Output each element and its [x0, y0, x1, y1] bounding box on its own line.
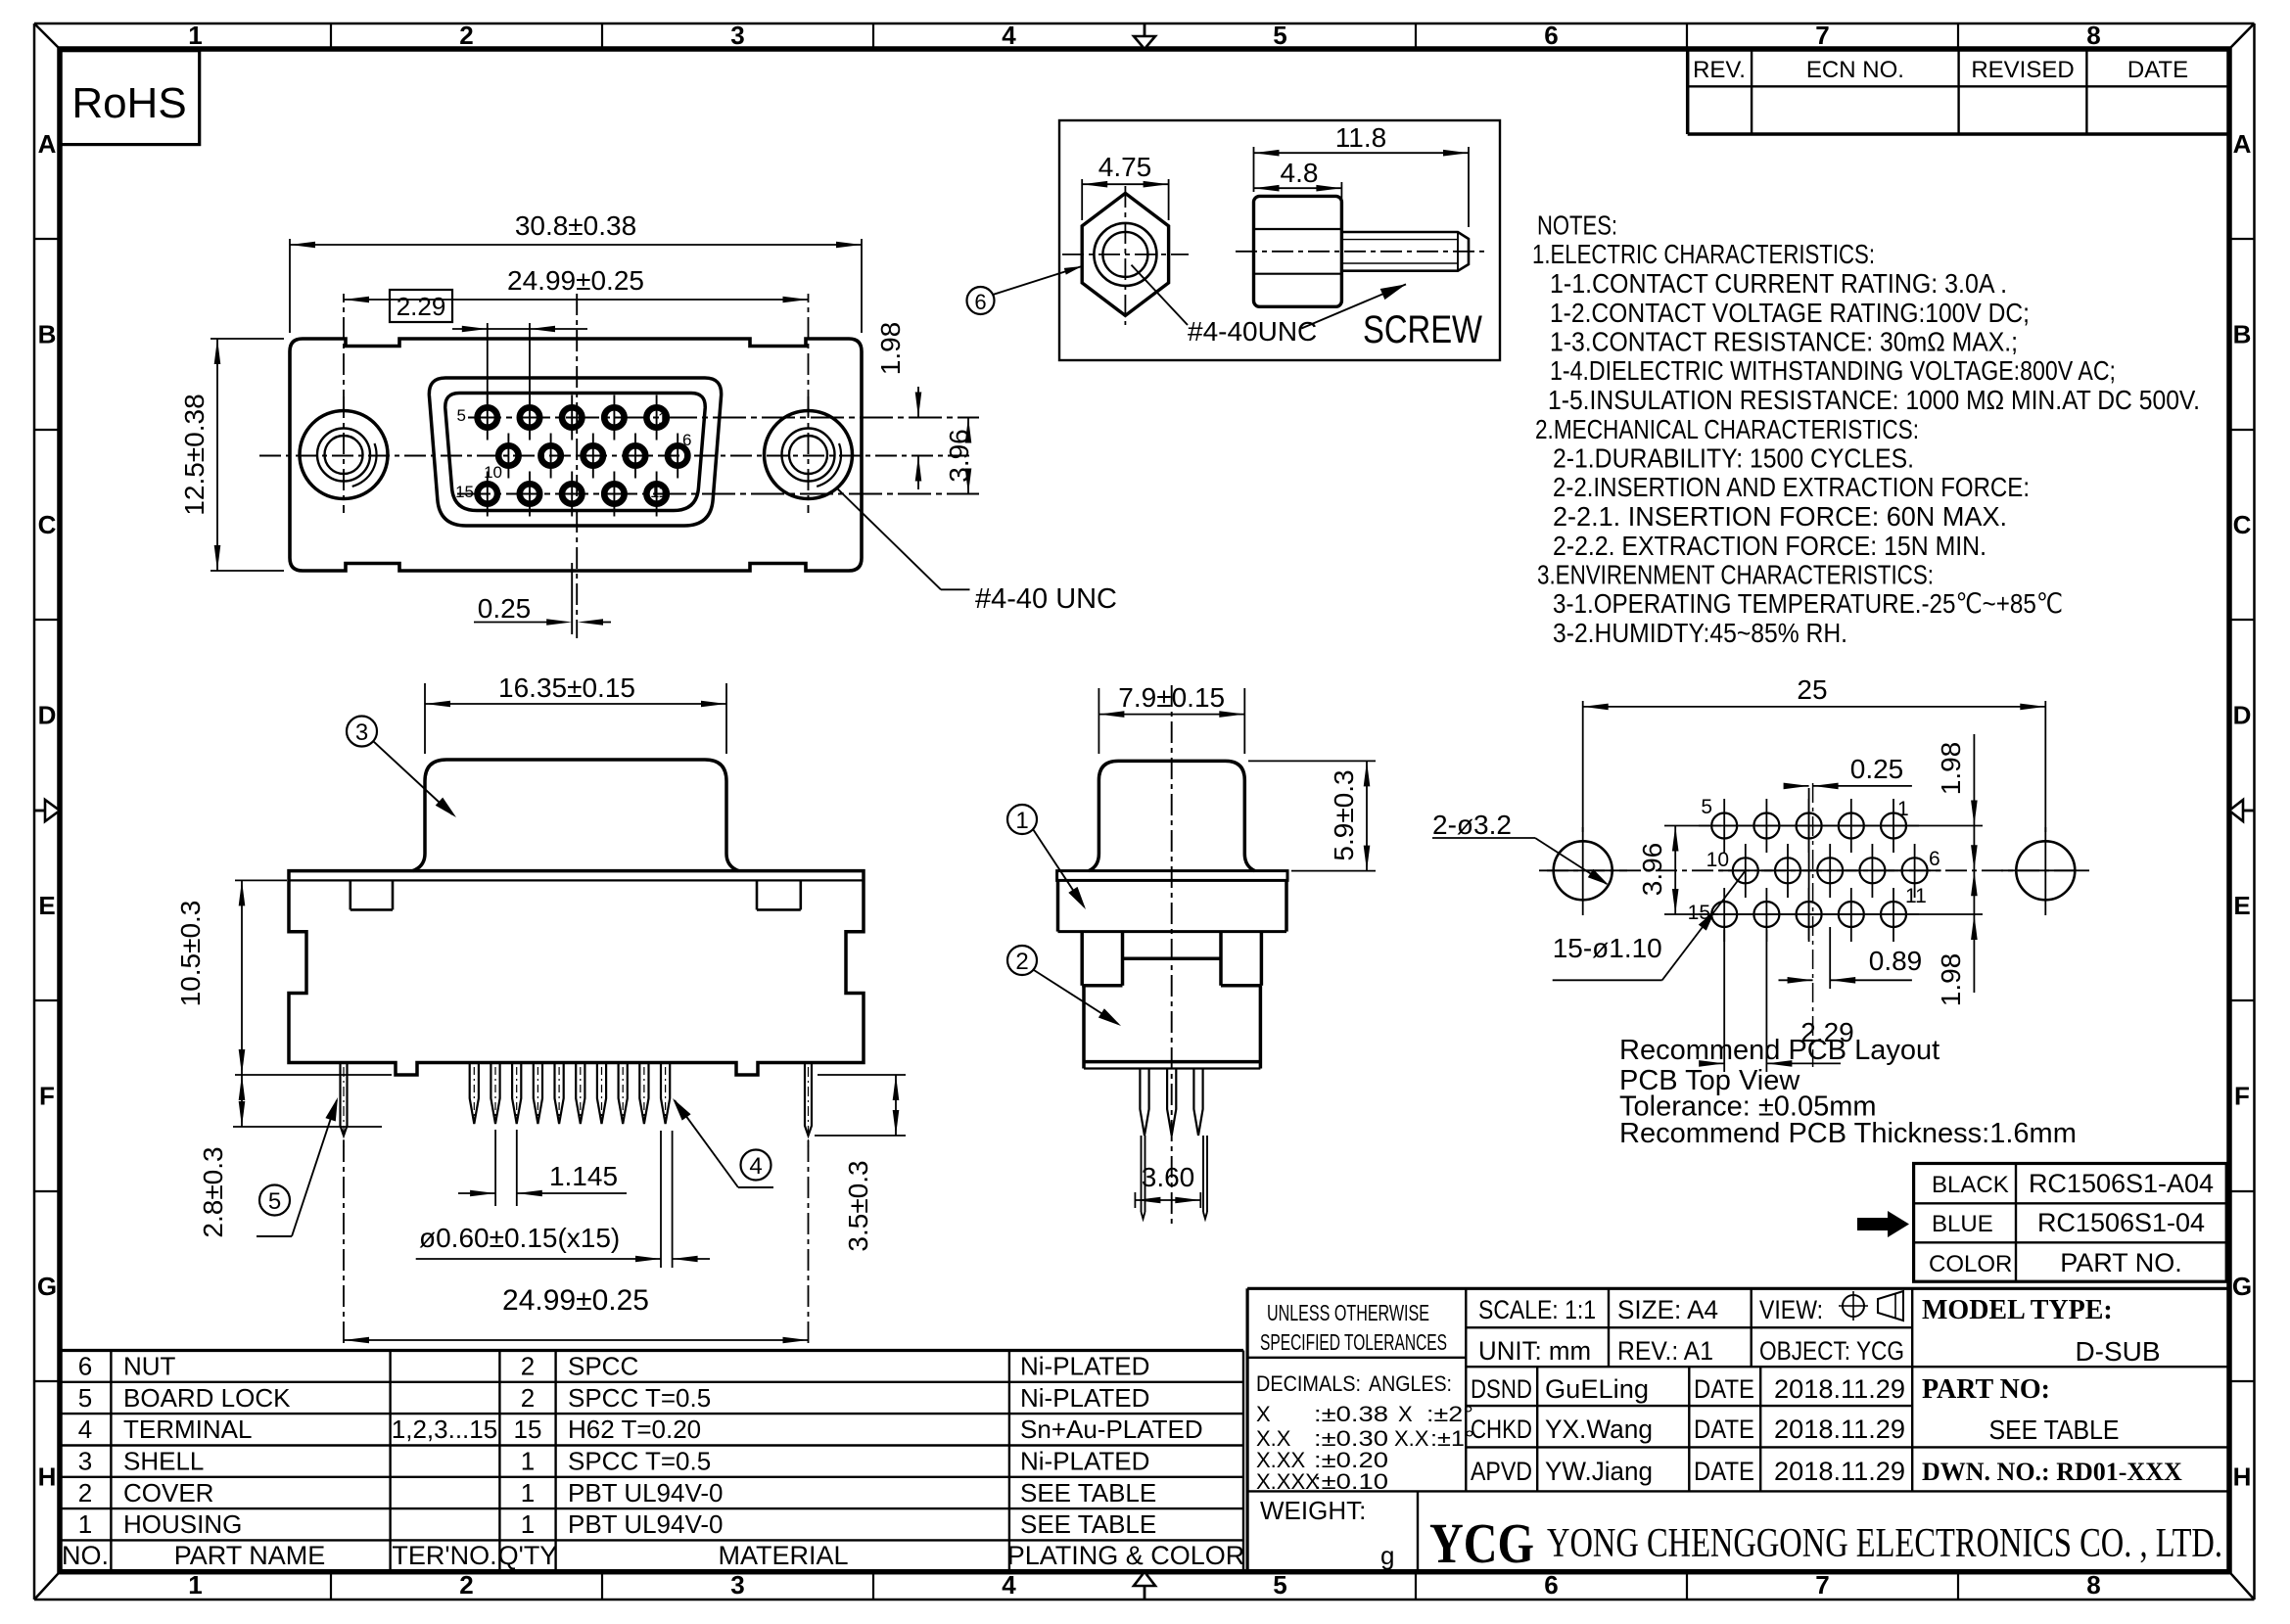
- svg-text:15: 15: [514, 1415, 542, 1444]
- svg-text:2: 2: [521, 1352, 535, 1381]
- PCB row3 line: [1699, 913, 1919, 915]
- hex nut circles: [1094, 223, 1156, 286]
- front view flange outline: [290, 339, 862, 571]
- weight text: [1260, 1496, 1394, 1570]
- mounting hole left front view: [300, 396, 388, 513]
- corner diagonal top-right: [2229, 23, 2255, 49]
- balloon 4 terminal: [673, 1098, 773, 1187]
- svg-text:TERMINAL: TERMINAL: [123, 1415, 252, 1444]
- corner diagonal bottom-left: [34, 1572, 60, 1600]
- svg-text:16.35±0.15: 16.35±0.15: [498, 673, 635, 703]
- svg-text:0.89: 0.89: [1869, 946, 1923, 976]
- svg-text:3.ENVIRENMENT CHARACTERISTICS: 3.ENVIRENMENT CHARACTERISTICS:: [1537, 560, 1934, 590]
- rear view body outline: [289, 871, 864, 1075]
- svg-text:UNIT: mm: UNIT: mm: [1478, 1336, 1591, 1366]
- svg-text:X: X: [1398, 1402, 1413, 1426]
- svg-text:10: 10: [484, 463, 502, 482]
- svg-text:ECN NO.: ECN NO.: [1806, 57, 1904, 83]
- svg-text:ø0.60±0.15(x15): ø0.60±0.15(x15): [419, 1223, 620, 1253]
- svg-text:2-1.DURABILITY: 1500 CYCLES.: 2-1.DURABILITY: 1500 CYCLES.: [1553, 443, 1914, 474]
- pin contacts row 3 (pins 15-11): [478, 472, 667, 517]
- part no text: [1922, 1374, 2182, 1486]
- svg-text:A: A: [38, 129, 57, 159]
- side view housing block: [1058, 880, 1287, 931]
- svg-text:SHELL: SHELL: [123, 1447, 204, 1476]
- svg-text:#4-40 UNC: #4-40 UNC: [975, 583, 1117, 615]
- rear view flange line: [289, 879, 864, 881]
- PCB vertical centerline: [1812, 783, 1814, 1067]
- dimension 25: [1583, 674, 2046, 832]
- svg-text:PBT UL94V-0: PBT UL94V-0: [568, 1509, 724, 1539]
- YCG logo: [1429, 1511, 1534, 1575]
- svg-text:1.ELECTRIC CHARACTERISTICS:: 1.ELECTRIC CHARACTERISTICS:: [1532, 239, 1875, 269]
- dimension 5.9±0.3: [1248, 761, 1376, 870]
- svg-text:11: 11: [1905, 885, 1927, 907]
- zone numbers top: [188, 21, 2100, 50]
- PCB note text: [1619, 1035, 2077, 1149]
- svg-text:BLUE: BLUE: [1932, 1211, 1993, 1237]
- svg-text:#4-40UNC: #4-40UNC: [1188, 316, 1317, 347]
- title block grid: [1247, 1288, 2229, 1571]
- balloon 1 housing: [1007, 805, 1086, 909]
- dimension 0.25 PCB: [1784, 754, 1912, 789]
- svg-text:5: 5: [1701, 796, 1712, 818]
- label 15-ø1.10: [1553, 870, 1746, 980]
- svg-text:DECIMALS:: DECIMALS:: [1256, 1371, 1361, 1396]
- side view cover profile: [1082, 932, 1261, 1069]
- svg-text:5.9±0.3: 5.9±0.3: [1329, 769, 1359, 860]
- svg-text:PBT UL94V-0: PBT UL94V-0: [568, 1478, 724, 1508]
- front view vertical centerline: [576, 294, 578, 638]
- svg-text:OBJECT: YCG: OBJECT: YCG: [1759, 1336, 1904, 1366]
- svg-text:2-2.1. INSERTION FORCE:: 2-2.1. INSERTION FORCE: 60N MAX.: [1553, 501, 2007, 532]
- zone letters right: [2232, 129, 2252, 1492]
- svg-text:2: 2: [459, 21, 473, 50]
- RoHS label box: [60, 51, 200, 145]
- dimension 2.29 boxed: [390, 290, 587, 406]
- svg-text:H62 T=0.20: H62 T=0.20: [568, 1415, 701, 1444]
- svg-text:SPECIFIED TOLERANCES: SPECIFIED TOLERANCES: [1260, 1329, 1447, 1355]
- svg-text:1-5.INSULATION RESISTANCE: 1: 1-5.INSULATION RESISTANCE: 1000 MΩ MIN.A…: [1548, 385, 2200, 415]
- svg-text:2-ø3.2: 2-ø3.2: [1432, 810, 1512, 840]
- dimension ø0.60±0.15(x15): [416, 1131, 710, 1268]
- svg-text:DATE: DATE: [1694, 1415, 1754, 1444]
- svg-text:1: 1: [521, 1509, 535, 1539]
- svg-text:PLATING & COLOR: PLATING & COLOR: [1007, 1541, 1245, 1570]
- corner diagonal top-left: [34, 23, 60, 49]
- dimension 16.35±0.15: [425, 673, 726, 754]
- svg-text:BOARD LOCK: BOARD LOCK: [123, 1383, 291, 1413]
- svg-text:PART NAME: PART NAME: [174, 1541, 326, 1570]
- svg-text:REVISED: REVISED: [1971, 57, 2074, 83]
- svg-text:X.XXX: X.XXX: [1256, 1469, 1320, 1494]
- svg-text:2.29: 2.29: [397, 292, 446, 321]
- svg-text:SPCC: SPCC: [568, 1352, 638, 1381]
- svg-text:4.75: 4.75: [1098, 152, 1152, 182]
- board lock pin right rear: [805, 1063, 812, 1148]
- svg-text:1: 1: [521, 1478, 535, 1508]
- svg-text:SEE TABLE: SEE TABLE: [1020, 1509, 1156, 1539]
- svg-text:2.MECHANICAL CHARACTERISTICS:: 2.MECHANICAL CHARACTERISTICS:: [1535, 414, 1919, 444]
- dimension 11.8: [1254, 122, 1470, 227]
- board lock pin left rear: [341, 1063, 348, 1148]
- dimension 1.98 PCB top: [1724, 734, 1983, 993]
- svg-text:HOUSING: HOUSING: [123, 1509, 242, 1539]
- dimension 3.96 PCB: [1637, 826, 1721, 915]
- svg-text:6: 6: [1929, 848, 1940, 870]
- svg-text:24.99±0.25: 24.99±0.25: [502, 1284, 649, 1317]
- view symbols: [1839, 1291, 1903, 1321]
- svg-text:DSND: DSND: [1471, 1374, 1532, 1404]
- label 2-ø3.2: [1432, 810, 1609, 885]
- svg-text:C: C: [38, 510, 57, 539]
- title block row 2 text: [1478, 1336, 1904, 1366]
- screw head side view: [1254, 196, 1342, 306]
- svg-text:1.98: 1.98: [1936, 953, 1966, 1007]
- svg-text:1: 1: [188, 1570, 202, 1600]
- svg-text:REV.: A1: REV.: A1: [1617, 1336, 1713, 1366]
- zone numbers bottom: [188, 1570, 2100, 1600]
- svg-text:3: 3: [78, 1447, 92, 1476]
- svg-text:RoHS: RoHS: [71, 79, 186, 127]
- PCB pin labels: [1688, 796, 1940, 924]
- rear view board lock tab right: [757, 880, 801, 909]
- svg-text:6: 6: [974, 290, 986, 314]
- svg-text:WEIGHT:: WEIGHT:: [1260, 1496, 1366, 1525]
- dimension 3.5±0.3: [815, 1075, 906, 1252]
- svg-text:ANGLES:: ANGLES:: [1369, 1371, 1452, 1396]
- D-sub shell inner outline: [445, 394, 705, 511]
- svg-text:Recommend PCB Thickness:1.6m: Recommend PCB Thickness:1.6mm: [1619, 1118, 2077, 1149]
- svg-text:NOTES:: NOTES:: [1537, 210, 1617, 241]
- svg-text:2: 2: [78, 1478, 92, 1508]
- svg-text:H: H: [38, 1462, 57, 1492]
- svg-text:2018.11.29: 2018.11.29: [1774, 1457, 1905, 1486]
- svg-text:NO.: NO.: [62, 1541, 109, 1570]
- svg-text:RC1506S1-A04: RC1506S1-A04: [2029, 1169, 2214, 1198]
- svg-text:GuELing: GuELing: [1545, 1374, 1649, 1404]
- svg-text:12.5±0.38: 12.5±0.38: [179, 394, 210, 515]
- svg-text:COVER: COVER: [123, 1478, 213, 1508]
- svg-text:2-2.2. EXTRACTION FORCE: 15: 2-2.2. EXTRACTION FORCE: 15N MIN.: [1553, 531, 1986, 561]
- svg-text::±0.10: :±0.10: [1314, 1469, 1388, 1494]
- zone letters left: [37, 129, 57, 1492]
- svg-text:DATE: DATE: [1694, 1374, 1754, 1404]
- svg-text:G: G: [2232, 1272, 2252, 1301]
- side view terminal pins: [1140, 1069, 1202, 1137]
- dimension 1.145: [458, 1130, 627, 1206]
- svg-text:RC1506S1-04: RC1506S1-04: [2037, 1208, 2205, 1237]
- svg-text:Ni-PLATED: Ni-PLATED: [1020, 1447, 1149, 1476]
- balloon 6 nut: [967, 266, 1083, 314]
- svg-text:7.9±0.15: 7.9±0.15: [1118, 682, 1225, 713]
- terminal pins rear view: [470, 1063, 671, 1125]
- PCB holes row 2: [1719, 844, 1941, 898]
- svg-text:YX.Wang: YX.Wang: [1545, 1415, 1653, 1444]
- svg-text:3.5±0.3: 3.5±0.3: [843, 1160, 873, 1251]
- balloon 3 shell: [347, 717, 456, 818]
- tolerance box text: [1256, 1300, 1474, 1494]
- rear view board lock tab left: [351, 880, 393, 909]
- svg-text:D: D: [38, 701, 57, 730]
- dimension 1.98 PCB bottom: [1724, 914, 1983, 1006]
- svg-text:5: 5: [457, 406, 466, 425]
- svg-text:G: G: [37, 1272, 57, 1301]
- svg-text:PART NO:: PART NO:: [1922, 1374, 2050, 1405]
- notes text block: [1532, 210, 2200, 649]
- svg-text:7: 7: [1815, 21, 1829, 50]
- color table grid: [1914, 1164, 2227, 1282]
- label #4-40UNC nut thread: [1132, 265, 1318, 347]
- svg-text:1.98: 1.98: [1936, 742, 1966, 796]
- screw threaded shank: [1341, 232, 1469, 271]
- svg-text:H: H: [2233, 1462, 2252, 1492]
- svg-text:Recommend PCB Layout: Recommend PCB Layout: [1619, 1035, 1939, 1066]
- revision table grid: [1688, 49, 2229, 134]
- corner diagonal bottom-right: [2229, 1572, 2255, 1600]
- svg-text:1: 1: [1897, 798, 1909, 820]
- svg-text:g: g: [1380, 1541, 1394, 1570]
- svg-text:3.60: 3.60: [1142, 1162, 1195, 1192]
- dimension 7.9±0.15: [1098, 682, 1244, 754]
- label #4-40 UNC with leader: [838, 489, 1117, 615]
- color table arrow: [1857, 1211, 1909, 1237]
- svg-text:1,2,3...15: 1,2,3...15: [392, 1415, 497, 1444]
- svg-text:1-2.CONTACT VOLTAGE RATING:1: 1-2.CONTACT VOLTAGE RATING:100V DC;: [1550, 298, 2030, 328]
- dimension 3.60: [1135, 1162, 1200, 1208]
- svg-text:5: 5: [268, 1188, 281, 1215]
- svg-text:E: E: [2233, 891, 2250, 920]
- color table text: [1929, 1169, 2214, 1277]
- zone tick marks left: [34, 239, 60, 1381]
- svg-text:0.25: 0.25: [478, 593, 532, 624]
- svg-text:YONG CHENGGONG ELECTRONICS: YONG CHENGGONG ELECTRONICS CO. , LTD.: [1547, 1521, 2222, 1566]
- PCB holes row 3: [1711, 888, 1906, 942]
- PCB mounting hole left: [1539, 827, 1627, 915]
- dimension 30.8±0.38: [290, 210, 862, 333]
- svg-text:VIEW:: VIEW:: [1759, 1295, 1823, 1324]
- svg-text:F: F: [2234, 1082, 2250, 1111]
- front view pin row 3 centerline: [457, 493, 979, 495]
- PCB row1 line: [1699, 825, 1919, 827]
- svg-text:4: 4: [78, 1415, 92, 1444]
- svg-text:24.99±0.25: 24.99±0.25: [507, 265, 644, 296]
- svg-text:A: A: [2233, 129, 2252, 159]
- svg-text:15: 15: [455, 483, 474, 501]
- dimension 12.5±0.38: [179, 339, 284, 571]
- pin contacts row 1 (pins 5-1): [478, 395, 667, 441]
- title block row 1 text: [1478, 1295, 1823, 1324]
- svg-text:1: 1: [188, 21, 202, 50]
- svg-text:1: 1: [658, 409, 667, 428]
- svg-text:Ni-PLATED: Ni-PLATED: [1020, 1352, 1149, 1381]
- dimension 24.99±0.25 front: [344, 265, 809, 411]
- svg-text:CHKD: CHKD: [1471, 1415, 1532, 1444]
- svg-text:UNLESS OTHERWISE: UNLESS OTHERWISE: [1267, 1300, 1429, 1325]
- svg-text:7: 7: [1815, 1570, 1829, 1600]
- svg-text:BLACK: BLACK: [1932, 1172, 2009, 1198]
- PCB holes row 1: [1711, 799, 1906, 853]
- dimension 0.25 front: [474, 593, 611, 626]
- svg-text:YW.Jiang: YW.Jiang: [1545, 1457, 1653, 1486]
- D-sub shell outer outline: [429, 378, 721, 526]
- svg-text:2: 2: [1015, 949, 1028, 975]
- PCB horizontal centerline: [1547, 869, 2080, 871]
- dimension 3.96 front: [944, 418, 974, 494]
- svg-text:1: 1: [1015, 808, 1028, 834]
- svg-text:E: E: [38, 891, 55, 920]
- svg-text:C: C: [2233, 510, 2252, 539]
- pin number labels front view: [455, 406, 691, 501]
- svg-text:SEE TABLE: SEE TABLE: [1989, 1415, 2120, 1445]
- zone tick marks top: [331, 23, 1958, 49]
- svg-text:4: 4: [749, 1153, 762, 1180]
- svg-text:2018.11.29: 2018.11.29: [1774, 1374, 1905, 1404]
- svg-text:Q'TY: Q'TY: [498, 1541, 558, 1570]
- svg-text:2: 2: [521, 1383, 535, 1413]
- svg-text:1.145: 1.145: [549, 1161, 618, 1191]
- svg-text:DWN. NO.: RD01-XXX: DWN. NO.: RD01-XXX: [1922, 1458, 2182, 1486]
- svg-text:MODEL TYPE:: MODEL TYPE:: [1922, 1295, 2113, 1325]
- parts table grid: [60, 1351, 1243, 1572]
- svg-text::±1°: :±1°: [1430, 1426, 1474, 1451]
- RoHS text: [71, 79, 186, 127]
- svg-text:8: 8: [2086, 21, 2100, 50]
- screw leader arrow: [1301, 284, 1406, 328]
- svg-text:NUT: NUT: [123, 1352, 176, 1381]
- svg-text:15-ø1.10: 15-ø1.10: [1553, 933, 1662, 963]
- dimension 10.5±0.3: [175, 880, 392, 1075]
- signature rows text: [1471, 1374, 1905, 1486]
- svg-text:YCG: YCG: [1429, 1511, 1534, 1575]
- side view flange plate: [1057, 871, 1287, 881]
- dimension 4.75: [1082, 152, 1168, 220]
- svg-text:2018.11.29: 2018.11.29: [1774, 1415, 1905, 1444]
- svg-text:4: 4: [1002, 1570, 1016, 1600]
- side view cover hump: [1089, 761, 1255, 870]
- side view rear pins long: [1142, 1136, 1208, 1219]
- svg-text:SPCC T=0.5: SPCC T=0.5: [568, 1383, 711, 1413]
- front view horizontal centerline: [259, 455, 969, 457]
- svg-text:25: 25: [1797, 674, 1827, 705]
- svg-text:SEE TABLE: SEE TABLE: [1020, 1478, 1156, 1508]
- zone tick marks right: [2229, 239, 2255, 1381]
- mounting hole right front view: [765, 396, 853, 513]
- svg-text:3: 3: [730, 21, 744, 50]
- svg-text:2.8±0.3: 2.8±0.3: [198, 1146, 228, 1237]
- svg-text:X.X: X.X: [1394, 1426, 1429, 1451]
- svg-text:5: 5: [1273, 1570, 1286, 1600]
- svg-text:D: D: [2233, 701, 2252, 730]
- SCREW text: [1363, 308, 1482, 351]
- svg-text:X: X: [1256, 1402, 1271, 1426]
- svg-text:3.96: 3.96: [944, 429, 974, 483]
- screw centerline: [1236, 251, 1484, 253]
- svg-text:B: B: [2233, 320, 2252, 349]
- dimension 0.89 PCB: [1779, 927, 1923, 989]
- center mark top: [1134, 23, 1155, 49]
- dimension 1.98 front: [875, 322, 921, 489]
- svg-text:3.96: 3.96: [1637, 843, 1667, 897]
- parts table rows text: [78, 1352, 1203, 1540]
- PCB column line: [1808, 788, 1810, 940]
- dimension 24.99±0.25 bottom: [344, 1140, 809, 1346]
- svg-text:Ni-PLATED: Ni-PLATED: [1020, 1383, 1149, 1413]
- svg-text:6: 6: [1544, 1570, 1558, 1600]
- svg-text:2-2.INSERTION AND EXTRACTION: 2-2.INSERTION AND EXTRACTION FORCE:: [1553, 472, 2030, 502]
- svg-text:0.25: 0.25: [1850, 754, 1904, 784]
- front view pin column line: [571, 563, 573, 634]
- center mark left: [34, 800, 60, 821]
- svg-text:3-1.OPERATING TEMPERATURE.-25: 3-1.OPERATING TEMPERATURE.-25℃~+85℃: [1553, 588, 2063, 619]
- svg-text:3: 3: [730, 1570, 744, 1600]
- svg-text:COLOR: COLOR: [1929, 1251, 2012, 1277]
- svg-text:3: 3: [355, 719, 368, 746]
- svg-text:SCREW: SCREW: [1363, 308, 1482, 351]
- model type text: [1922, 1295, 2161, 1367]
- svg-text:6: 6: [682, 431, 691, 449]
- dimension 2.8±0.3: [198, 1075, 382, 1238]
- revision table headers: [1693, 57, 2188, 83]
- svg-text:10: 10: [1706, 849, 1729, 871]
- svg-text:MATERIAL: MATERIAL: [718, 1541, 848, 1570]
- svg-text:APVD: APVD: [1471, 1457, 1532, 1486]
- svg-text:1: 1: [521, 1447, 535, 1476]
- front view pin row 1 centerline: [468, 417, 979, 419]
- svg-text:SPCC T=0.5: SPCC T=0.5: [568, 1447, 711, 1476]
- svg-text:1-4.DIELECTRIC WITHSTANDING: 1-4.DIELECTRIC WITHSTANDING VOLTAGE:800V…: [1550, 355, 2116, 386]
- center mark right: [2229, 800, 2255, 821]
- side view centerline: [1171, 685, 1173, 1224]
- svg-text:3-2.HUMIDTY:45~85% RH.: 3-2.HUMIDTY:45~85% RH.: [1553, 618, 1847, 648]
- PCB mounting hole right: [2001, 827, 2089, 915]
- svg-text:F: F: [39, 1082, 55, 1111]
- svg-text:DATE: DATE: [1694, 1457, 1754, 1486]
- center mark bottom: [1134, 1572, 1155, 1600]
- svg-text:SCALE: 1:1: SCALE: 1:1: [1478, 1295, 1596, 1324]
- svg-text:B: B: [38, 320, 57, 349]
- svg-text:D-SUB: D-SUB: [2075, 1336, 2160, 1367]
- balloon 5 board lock: [257, 1097, 338, 1236]
- svg-text:PART NO.: PART NO.: [2060, 1248, 2182, 1277]
- svg-text:REV.: REV.: [1693, 57, 1746, 83]
- svg-text:1-3.CONTACT RESISTANCE: 30mΩ: 1-3.CONTACT RESISTANCE: 30mΩ MAX.;: [1550, 327, 2018, 357]
- svg-text:SIZE: A4: SIZE: A4: [1617, 1295, 1718, 1324]
- svg-text:1: 1: [78, 1509, 92, 1539]
- svg-text:11: 11: [650, 483, 668, 501]
- terminal pin centerlines: [474, 1067, 665, 1118]
- svg-text:6: 6: [78, 1352, 92, 1381]
- company name: [1547, 1521, 2222, 1566]
- parts table header text: [62, 1541, 1244, 1570]
- svg-text:1.98: 1.98: [875, 322, 906, 376]
- hex nut crosshair: [1062, 186, 1189, 325]
- svg-text:DATE: DATE: [2127, 57, 2188, 83]
- svg-text:TER'NO.: TER'NO.: [392, 1541, 496, 1570]
- dimension 2.29 PCB: [1699, 930, 1854, 1072]
- dimension 4.8: [1254, 158, 1342, 227]
- screw detail box: [1059, 120, 1500, 360]
- zone tick marks bottom: [331, 1572, 1958, 1600]
- hex nut outline: [1082, 193, 1168, 315]
- svg-text:30.8±0.38: 30.8±0.38: [515, 210, 636, 241]
- svg-text::±2°: :±2°: [1426, 1402, 1473, 1426]
- svg-text:2: 2: [459, 1570, 473, 1600]
- rear view cover hump: [413, 760, 739, 871]
- pin contacts row 2 (pins 10-6): [498, 434, 687, 479]
- svg-text::±0.38: :±0.38: [1314, 1402, 1388, 1426]
- svg-text:4.8: 4.8: [1281, 158, 1319, 188]
